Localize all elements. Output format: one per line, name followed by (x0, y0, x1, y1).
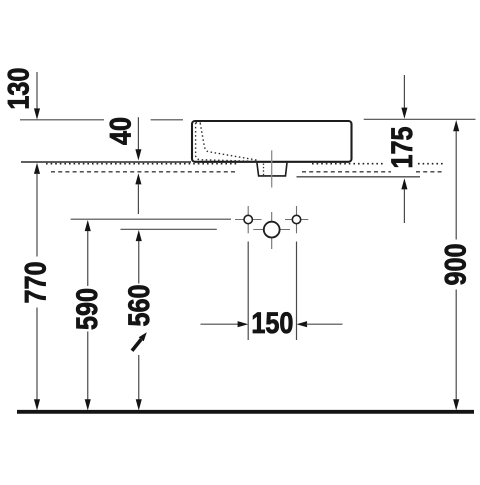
dimension 150 left arrow (201, 323, 240, 325)
svg-text:40: 40 (104, 117, 138, 145)
svg-text:770: 770 (18, 261, 52, 303)
dimension 175 line upper (403, 75, 405, 109)
590 reference line (71, 218, 231, 220)
dimension 900 line lower (455, 290, 457, 402)
drain inner dotted (263, 164, 265, 176)
basin inner profile top connector (196, 122, 201, 124)
faucet hole left circle (244, 215, 252, 223)
dimension 770 arrowhead down (34, 399, 40, 410)
faucet hole extension line left (247, 242, 249, 341)
drain centerline (271, 150, 273, 187)
dashed line segment 2 (302, 171, 391, 173)
svg-text:130: 130 (2, 68, 36, 110)
dimension 40 line lower (137, 184, 139, 214)
dimension 560 line upper (138, 241, 140, 284)
dimension 560 line lower (138, 355, 140, 401)
dashed line segment 1 (51, 171, 236, 173)
560 reference line (121, 228, 217, 230)
faucet hole left cross (235, 219, 262, 221)
basin inner profile outer dotted (196, 123, 258, 162)
dimension 770 arrowhead up (34, 163, 40, 174)
dimension 130 arrowhead (34, 108, 40, 119)
rim level line right (364, 118, 476, 120)
dimension 590 arrowhead up (85, 220, 91, 231)
center hole circle (264, 222, 280, 238)
dimension 40 arrowhead down (135, 149, 141, 160)
dashed line segment 3 (416, 171, 444, 173)
dimension 770 line upper (36, 174, 38, 257)
dimension 900 arrowhead up (453, 120, 459, 131)
dimension 770 line lower (36, 308, 38, 402)
washbasin outline (192, 121, 352, 162)
dimension 40 arrowhead up (135, 173, 141, 184)
svg-text:590: 590 (70, 288, 104, 330)
dimension 590 line lower (87, 332, 89, 402)
floor line (17, 410, 474, 414)
counter line left solid (21, 161, 191, 163)
dimension 900 arrowhead down (453, 399, 459, 410)
dimension 560 adjustable arrow (139, 332, 147, 341)
dotted line under counter segment 1 (46, 163, 237, 165)
dimension 560 arrowhead up (136, 230, 142, 241)
basin inner profile inner dotted (200, 123, 257, 160)
dotted line under counter segment 2 (312, 163, 385, 165)
dimension 900 line upper (455, 131, 457, 240)
dimension 40 line upper (137, 117, 139, 151)
svg-text:150: 150 (251, 306, 293, 340)
175 reference line (297, 176, 421, 178)
svg-text:560: 560 (122, 284, 156, 326)
dimension 175 arrowhead down (401, 108, 407, 119)
dimension 175 line lower (403, 190, 405, 224)
dimension 590 arrowhead down (85, 399, 91, 410)
rim level line mid (151, 119, 183, 121)
center hole cross (253, 229, 290, 231)
faucet hole extension line right (296, 242, 298, 341)
dimension 560 arrowhead down (136, 399, 142, 410)
svg-text:175: 175 (385, 126, 419, 168)
dimension 590 line upper (87, 231, 89, 286)
faucet hole right circle (292, 215, 300, 223)
dotted line under counter segment 3 (418, 163, 444, 165)
rim level line left (20, 119, 104, 121)
svg-text:900: 900 (438, 243, 472, 285)
dimension 175 arrowhead up (401, 178, 407, 189)
drain outline (257, 163, 287, 176)
faucet hole right cross (285, 219, 308, 221)
dimension 150 right arrow (297, 321, 308, 327)
dimension 130 line (36, 72, 38, 110)
